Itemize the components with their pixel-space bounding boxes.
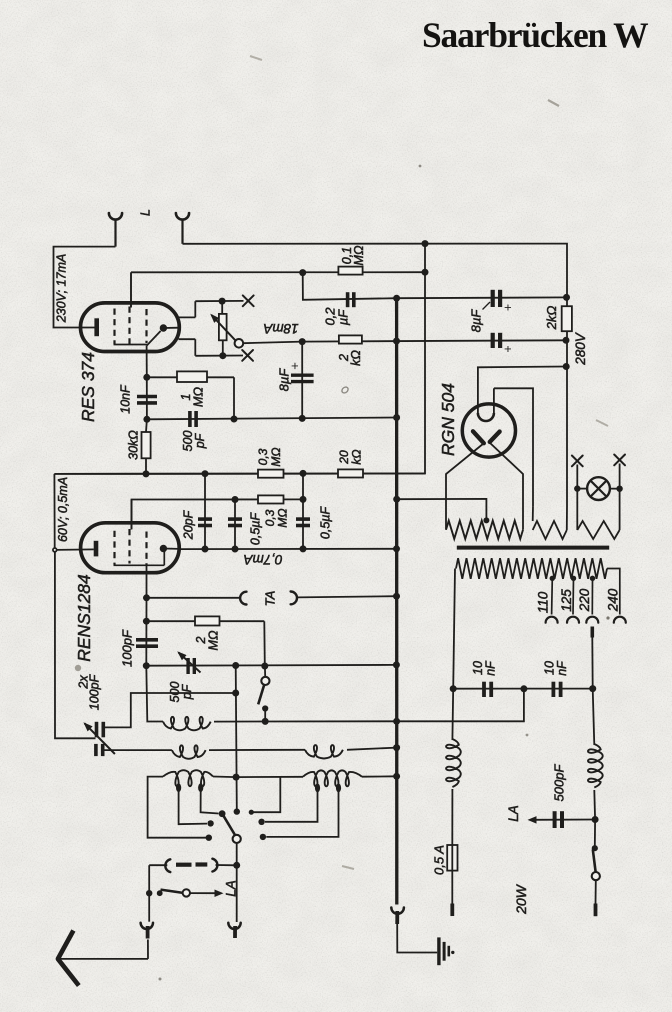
wire left rail to tuning cap bbox=[55, 552, 96, 739]
coil L2a bbox=[172, 745, 206, 758]
resistor 0.3 MOhm (1) bbox=[258, 470, 284, 478]
primary winding bbox=[456, 558, 607, 579]
svg-text:+: + bbox=[501, 304, 515, 311]
svg-text:MΩ: MΩ bbox=[352, 245, 366, 265]
pot bottom wire with X bbox=[195, 355, 243, 357]
primary left lead bbox=[453, 569, 455, 689]
wire S2 to aerial node bbox=[236, 843, 238, 922]
svg-text:L: L bbox=[139, 209, 153, 216]
svg-text:8µF: 8µF bbox=[277, 368, 292, 392]
wave switch S2 bbox=[219, 810, 226, 817]
svg-text:Saarbrücken W: Saarbrücken W bbox=[422, 15, 648, 55]
RENS1284 anode lead down bbox=[146, 565, 148, 598]
RGN504 stem notch bbox=[478, 413, 494, 421]
svg-text:RENS1284: RENS1284 bbox=[74, 574, 94, 662]
capacitor 10nF bbox=[146, 377, 148, 419]
svg-text:RGN 504: RGN 504 bbox=[438, 383, 458, 456]
svg-text:18mA: 18mA bbox=[263, 321, 298, 336]
terminal cup LA out bbox=[228, 923, 240, 929]
choke right bbox=[593, 689, 595, 745]
wire B+ top line bbox=[397, 296, 567, 299]
HV center tap bbox=[483, 517, 489, 523]
svg-text:TA: TA bbox=[263, 591, 278, 607]
resistor 2 MOhm bbox=[146, 620, 264, 622]
pilot lamp bbox=[572, 456, 583, 467]
primary right lead / 240 tap bbox=[607, 569, 620, 615]
wire top line to right rail bbox=[183, 244, 568, 506]
svg-text:60V; 0,5mA: 60V; 0,5mA bbox=[56, 477, 70, 542]
pot bracket upper stub bbox=[179, 316, 196, 318]
svg-text:280V: 280V bbox=[573, 331, 588, 366]
RENS1284 screen tie bar bbox=[114, 564, 165, 566]
svg-text:pF: pF bbox=[180, 683, 194, 700]
coil L3a tapped bbox=[148, 777, 209, 838]
mains pin left bbox=[450, 904, 454, 917]
RGN504 filament bbox=[473, 431, 484, 443]
svg-text:MΩ: MΩ bbox=[276, 508, 290, 527]
wire TA line bbox=[147, 597, 241, 599]
svg-text:0,5 A: 0,5 A bbox=[432, 845, 447, 875]
capacitor 8uF electrolytic left bbox=[301, 342, 303, 419]
svg-text:kΩ: kΩ bbox=[350, 449, 364, 464]
contact to row3 bbox=[251, 777, 280, 812]
resistor 2 kOhm bbox=[339, 335, 362, 343]
resistor 0.1 MOhm bbox=[338, 267, 362, 275]
capacitor 100pF bbox=[145, 598, 147, 666]
wire row1 bbox=[214, 720, 397, 722]
svg-text:2kΩ: 2kΩ bbox=[544, 306, 559, 331]
pot wiper arrow bbox=[212, 315, 236, 340]
svg-text:pF: pF bbox=[193, 432, 207, 449]
scan specks bbox=[341, 386, 350, 394]
mains pin 220 bbox=[590, 627, 594, 638]
RENS1284 grid dashes bbox=[113, 531, 115, 565]
svg-text:230V; 17mA: 230V; 17mA bbox=[55, 254, 69, 324]
mains switch bbox=[594, 820, 596, 849]
svg-text:nF: nF bbox=[484, 660, 498, 676]
svg-text:nF: nF bbox=[555, 660, 569, 676]
capacitor 0.5uF (2) bbox=[302, 473, 304, 549]
wire cap A to grid node bbox=[105, 693, 236, 727]
RGN504 leads to filament winding bbox=[446, 444, 484, 529]
wire row2 bbox=[209, 749, 305, 751]
frame aerial coil bbox=[149, 864, 167, 866]
fuse 0.5A bbox=[451, 789, 453, 845]
svg-text:220: 220 bbox=[577, 588, 592, 612]
svg-text:+: + bbox=[501, 345, 515, 352]
RES374 anode bbox=[160, 324, 167, 331]
wire cap B to row2 bbox=[104, 749, 172, 751]
variable capacitor gang 2x100pF bbox=[95, 722, 99, 738]
svg-text:100pF: 100pF bbox=[120, 629, 135, 667]
node 280V bbox=[563, 363, 570, 370]
terminal cup A1 bbox=[109, 213, 122, 220]
RENS1284 anode bbox=[160, 545, 167, 552]
capacitor 8uF (1) bbox=[491, 290, 495, 307]
svg-text:30kΩ: 30kΩ bbox=[127, 430, 141, 460]
wire RGN pin2 to winding bbox=[494, 388, 533, 506]
L3a tap 2 bbox=[201, 790, 219, 814]
coil L2b bbox=[305, 745, 343, 758]
resistor 30kOhm bbox=[145, 419, 148, 432]
triode RES374 envelope bbox=[81, 303, 180, 352]
choke left bbox=[451, 689, 454, 740]
trimmer capacitor 500pF bbox=[186, 658, 189, 674]
antenna symbol bbox=[58, 931, 79, 986]
ground symbol bbox=[437, 937, 440, 965]
terminal cup A2 bbox=[176, 213, 189, 220]
svg-text:MΩ: MΩ bbox=[192, 387, 206, 407]
svg-text:10nF: 10nF bbox=[119, 384, 133, 414]
wire grid RES374 to 0.1M line bbox=[131, 271, 425, 273]
capacitor 10nF (1) bbox=[482, 682, 486, 697]
capacitor 0.2 uF bbox=[346, 292, 350, 307]
coil L3b tapped bbox=[303, 770, 362, 786]
pot bracket lower stub bbox=[179, 338, 196, 340]
wire cathode-return line y=549 bbox=[180, 548, 397, 550]
wire 2k line bbox=[302, 340, 566, 341]
wire wiper to 2k line bbox=[243, 342, 302, 344]
L3b tap 2 bbox=[266, 790, 338, 837]
terminal cup antenna bbox=[141, 923, 153, 929]
rectifier RGN504 envelope bbox=[462, 404, 515, 457]
ground bus bbox=[395, 298, 398, 904]
mains pin right bbox=[594, 904, 598, 917]
capacitor 500pF mains bbox=[535, 819, 596, 821]
svg-text:20pF: 20pF bbox=[182, 509, 196, 540]
wire trimmer line bbox=[146, 664, 396, 667]
svg-text:MΩ: MΩ bbox=[269, 447, 283, 466]
svg-text:MΩ: MΩ bbox=[207, 630, 221, 650]
RES374 cathode bbox=[94, 318, 99, 336]
capacitor 20pF bbox=[204, 474, 206, 549]
L3a tap 1 bbox=[179, 790, 207, 825]
svg-text:kΩ: kΩ bbox=[349, 350, 363, 366]
wire x425 vertical bbox=[54, 244, 425, 474]
wire x236 vertical bbox=[236, 666, 237, 809]
RES374 anode lead down bbox=[146, 346, 148, 378]
switch LA link bbox=[157, 890, 163, 896]
RES374 screen tie bar bbox=[114, 344, 148, 346]
pot top wire with X bbox=[195, 300, 243, 302]
wire cathode RENS bbox=[53, 474, 55, 548]
svg-text:8µF: 8µF bbox=[469, 309, 484, 333]
svg-text:20W: 20W bbox=[513, 883, 529, 915]
tetrode RENS1284 envelope bbox=[81, 523, 180, 573]
switch S1 bbox=[263, 621, 266, 666]
svg-text:0,5µF: 0,5µF bbox=[249, 512, 263, 546]
svg-text:RES 374: RES 374 bbox=[78, 352, 98, 422]
transformer core bbox=[457, 546, 609, 550]
RENS1284 grid pin bbox=[131, 500, 133, 530]
svg-text:125: 125 bbox=[559, 589, 574, 612]
svg-text:500pF: 500pF bbox=[552, 764, 567, 802]
capacitor 0.5uF (1) bbox=[234, 500, 236, 549]
wire 0.2uF branch bbox=[303, 273, 397, 300]
svg-text:110: 110 bbox=[536, 591, 551, 613]
capacitor 10nF (2) bbox=[552, 682, 556, 697]
wire to ground bbox=[397, 924, 437, 953]
resistor 2kOhm right bbox=[562, 306, 572, 331]
bus terminal cup bbox=[391, 908, 404, 914]
connector TA arcs bbox=[240, 592, 246, 605]
wire 60V line bbox=[54, 473, 425, 475]
resistor 0.3 MOhm (2) bbox=[258, 495, 284, 503]
wire 280V to RGN pin1 bbox=[478, 367, 566, 414]
RENS1284 cathode bbox=[94, 541, 99, 557]
svg-text:0,3: 0,3 bbox=[256, 448, 270, 465]
capacitor 500pF bbox=[147, 418, 397, 420]
capacitor 8uF (2) bbox=[491, 333, 495, 348]
coil L1 bbox=[146, 666, 163, 722]
filament winding middle bbox=[532, 506, 534, 521]
wire top-left to 230V rail bbox=[54, 247, 116, 328]
svg-text:LA: LA bbox=[506, 805, 521, 822]
resistor 20 kOhm bbox=[338, 469, 363, 477]
wire screen line y=499.5 bbox=[132, 499, 304, 529]
pot wiper circle bbox=[235, 339, 244, 348]
RES374 grid pin bbox=[130, 272, 132, 307]
svg-text:100pF: 100pF bbox=[88, 673, 102, 710]
L3b tap 1 bbox=[265, 790, 318, 822]
potentiometer R bbox=[221, 301, 223, 314]
wire bus to 10nF mid bbox=[397, 689, 524, 722]
HV winding bbox=[446, 521, 523, 539]
wire 10nF line bbox=[453, 688, 593, 690]
svg-text:LA: LA bbox=[224, 880, 239, 897]
tap cups bbox=[546, 617, 558, 623]
svg-text:µF: µF bbox=[336, 309, 351, 325]
svg-text:240: 240 bbox=[606, 588, 621, 612]
lamp winding bbox=[576, 489, 578, 530]
svg-text:0,7mA: 0,7mA bbox=[243, 552, 282, 567]
wire aerial left leg bbox=[148, 865, 150, 922]
node top line / 0.1M line bbox=[422, 240, 429, 247]
taps 110/125/220 bbox=[550, 576, 555, 581]
resistor 1 MOhm bbox=[147, 376, 234, 378]
RES374 grid dashes bbox=[113, 309, 115, 345]
svg-text:0,5µF: 0,5µF bbox=[319, 506, 333, 540]
